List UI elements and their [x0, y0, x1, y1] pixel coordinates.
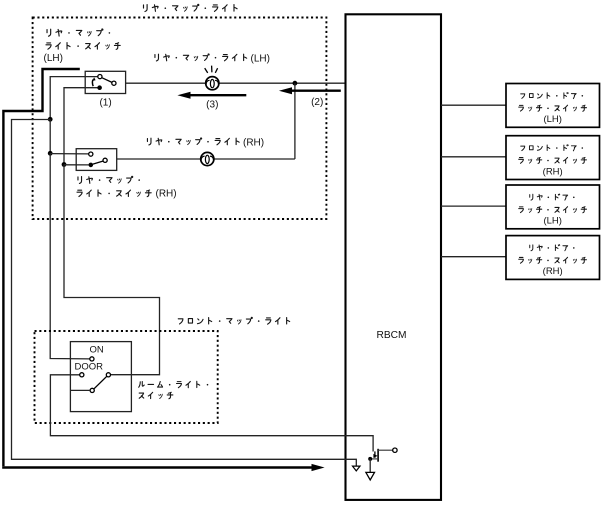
wire junction x50 down to second junction	[49, 119, 51, 153]
room light switch common terminal open circle	[106, 373, 110, 377]
room light switch lever bottom open circle	[90, 388, 94, 392]
current direction arrow (3) shaft	[189, 94, 246, 96]
thick power feed wire from rear map light switch (LH)	[3, 69, 79, 466]
svg-text:(RH): (RH)	[243, 138, 264, 149]
front door latch switch (RH) box	[506, 136, 600, 180]
ground triangle below transistor	[366, 472, 375, 480]
label rear map light switch (RH) line1	[78, 177, 82, 184]
lamp (LH) light rays	[205, 68, 208, 73]
switch (LH) bottom terminal filled dot	[97, 85, 102, 90]
svg-text:ON: ON	[90, 344, 104, 355]
label rear door latch switch (RH) line2	[519, 257, 524, 263]
rear door latch switch (RH) box	[506, 236, 600, 280]
lamp (LH) filament	[206, 80, 209, 84]
svg-text:(RH): (RH)	[156, 188, 177, 199]
junction node dot at x64 y164	[62, 162, 67, 167]
switch (RH) lever end open circle	[103, 158, 107, 162]
transistor Q1 drain wire to output circle	[378, 449, 393, 451]
wire DOOR terminal to left and down to RBCM transistor gate	[50, 375, 373, 452]
transistor Q1 source junction dot	[368, 457, 372, 461]
wire RBCM to front door latch switch (RH)	[441, 156, 506, 158]
label room light switch line2	[139, 393, 144, 398]
svg-text:(1): (1)	[99, 97, 111, 108]
svg-text:RBCM: RBCM	[377, 330, 407, 341]
junction node dot at x50 y153	[48, 151, 53, 156]
arrowhead (3) pointing left	[177, 92, 190, 99]
wire from rear map light switch (LH) top terminal down-left	[50, 77, 98, 120]
wire RBCM to rear door latch switch (RH)	[441, 256, 506, 258]
lamp (RH) bulb outer circle	[201, 152, 214, 165]
wire branch down from junction to lamp (RH) line	[294, 83, 296, 159]
label rear map light switch (LH) line1	[47, 29, 51, 36]
switch (LH) top terminal open circle	[98, 75, 102, 79]
switch (LH) momentary return curved arrow	[91, 80, 94, 87]
label front door latch switch (RH) line1	[521, 146, 525, 150]
transistor Q1 output terminal open circle	[393, 448, 397, 452]
small ground triangle inside RBCM (left)	[353, 466, 361, 471]
current direction arrow (2) shaft	[290, 89, 341, 91]
svg-text:(LH): (LH)	[543, 114, 561, 125]
wire from junction left to far-left vertical run down to RBCM ground input	[12, 120, 357, 466]
front map light dashed enclosure box	[35, 331, 218, 423]
switch (RH) lever	[93, 161, 103, 164]
wire junction to rear map light switch (RH) bottom terminal	[64, 164, 89, 166]
label rear map light (title)	[143, 5, 147, 12]
svg-text:(2): (2)	[311, 97, 323, 108]
transistor Q1 channel bar	[377, 449, 379, 462]
svg-text:DOOR: DOOR	[75, 361, 104, 372]
wire source down to ground	[369, 459, 371, 473]
front door latch switch (LH) box	[506, 84, 600, 128]
label rear door latch switch (LH) line2	[519, 207, 524, 213]
stub wire from box edge to lever bottom	[71, 389, 90, 391]
label front door latch switch (LH) line1	[521, 94, 525, 98]
label rear map light switch (RH) line2	[77, 190, 82, 196]
transistor Q1 substrate arrow	[373, 454, 377, 458]
switch (RH) top terminal open circle	[89, 152, 93, 156]
room light switch box	[70, 342, 131, 412]
wire x64 vertical down then right then down to room light switch common	[64, 165, 160, 375]
svg-text:(RH): (RH)	[543, 266, 563, 277]
wire x50 vertical continues down to room light switch ON terminal	[50, 153, 90, 359]
rear door latch switch (LH) box	[506, 185, 600, 229]
junction node dot above lamp RH branch	[293, 81, 298, 86]
RBCM module box	[346, 14, 442, 500]
arrowhead (2) pointing left	[279, 87, 292, 94]
svg-text:(LH): (LH)	[44, 53, 63, 64]
switch (LH) lever	[102, 78, 112, 83]
label rear map light (LH)	[155, 54, 159, 61]
switch (RH) bottom terminal filled dot	[89, 163, 94, 168]
rear map light switch (LH) box	[85, 71, 125, 93]
wire from switch (LH) right side through lamp (LH) to RBCM	[126, 82, 345, 84]
label rear door latch switch (RH) line1	[530, 245, 533, 251]
room light switch ON terminal open circle	[90, 357, 94, 361]
arrowhead of power feed wire pointing right	[312, 464, 325, 471]
room light switch DOOR terminal open circle	[80, 373, 84, 377]
junction node dot at x50 y119	[48, 117, 53, 122]
label front door latch switch (LH) line2	[519, 105, 524, 111]
label front map light	[178, 319, 183, 324]
svg-text:(3): (3)	[206, 100, 218, 111]
label rear door latch switch (LH) line1	[530, 194, 533, 200]
label room light switch line1	[139, 381, 145, 387]
label rear map light (RH)	[147, 138, 151, 145]
wire RBCM to front door latch switch (LH)	[441, 104, 506, 106]
wire junction to rear map light switch (RH) top terminal	[50, 153, 88, 155]
transistor Q1 gate bar	[374, 451, 376, 457]
lamp (RH) filament	[201, 156, 204, 160]
transistor Q1 source wire	[370, 458, 378, 460]
rear map light assembly dashed enclosure box	[33, 18, 327, 220]
rear map light switch (RH) box	[76, 149, 117, 171]
svg-text:(LH): (LH)	[543, 216, 561, 227]
wire RBCM to rear door latch switch (LH)	[441, 205, 506, 207]
svg-text:(RH): (RH)	[543, 166, 563, 177]
wire from switch (RH) right side through lamp (RH) to branch	[117, 158, 295, 160]
room light switch lever	[94, 376, 107, 389]
lamp (LH) bulb outer circle	[206, 77, 219, 90]
label front door latch switch (RH) line2	[519, 158, 524, 164]
label rear map light switch (LH) line2	[46, 43, 51, 49]
wire from rear map light switch (LH) bottom terminal down-left	[64, 88, 98, 165]
thick power feed wire bottom arrow shaft	[2, 466, 314, 468]
switch (LH) lever end open circle	[112, 81, 116, 85]
svg-text:(LH): (LH)	[251, 54, 270, 65]
